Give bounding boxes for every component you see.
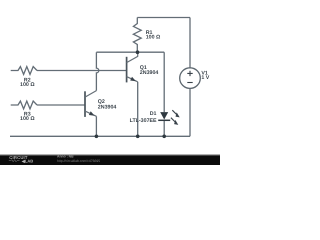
resistor R2 xyxy=(11,67,37,75)
transistor Q2 xyxy=(85,91,96,117)
wire R2 to Q1 base xyxy=(37,70,127,72)
node dot Q1 emitter / bottom rail xyxy=(136,135,140,139)
svg-text:LTL-307EE: LTL-307EE xyxy=(130,118,157,124)
svg-text:100 Ω: 100 Ω xyxy=(20,116,35,122)
wire D1 cathode lead xyxy=(163,120,165,136)
svg-text:2N3904: 2N3904 xyxy=(140,70,159,76)
wire V1 top lead xyxy=(189,18,191,68)
wire Q2 collector riser with hop over Q1 base wire xyxy=(96,52,98,90)
wire D1 anode lead xyxy=(163,52,165,112)
wire mid node: Q2 collector to R1/Q1 to D1 xyxy=(96,51,164,53)
LED D1 xyxy=(158,110,180,125)
svg-text:D1: D1 xyxy=(150,111,157,117)
resistor R1 xyxy=(133,18,141,53)
svg-text:1 V: 1 V xyxy=(201,75,209,81)
svg-text:100 Ω: 100 Ω xyxy=(20,82,35,88)
svg-text:◀LAB: ◀LAB xyxy=(21,158,33,163)
transistor Q1 xyxy=(127,52,138,82)
wire Q1 emitter lead xyxy=(137,82,139,137)
footer CircuitLab logo xyxy=(9,155,33,164)
wire V1 bottom lead xyxy=(189,88,191,136)
resistor R3 xyxy=(11,101,37,109)
svg-text:100 Ω: 100 Ω xyxy=(146,35,161,41)
svg-text:2N3904: 2N3904 xyxy=(98,104,117,110)
svg-text:http://circuitlab.com/c476695: http://circuitlab.com/c476695 xyxy=(57,159,100,163)
node dot Q2 emitter / bottom rail xyxy=(95,135,99,139)
footer bar xyxy=(0,155,220,165)
svg-text:Anno : NB: Anno : NB xyxy=(57,155,74,159)
voltage source V1 xyxy=(180,68,201,89)
top wire R1 to V1 xyxy=(137,17,190,19)
wire R3 to Q2 base xyxy=(37,104,85,106)
node dot R1/Q1 collector junction xyxy=(136,50,140,54)
node dot D1 cathode / bottom rail xyxy=(162,135,166,139)
wire bottom rail xyxy=(10,135,190,137)
wire Q2 emitter lead xyxy=(95,116,97,136)
